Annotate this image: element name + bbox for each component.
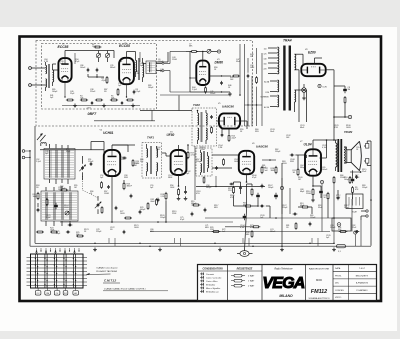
wire DM80 bus bbox=[160, 94, 230, 96]
wire heater drop lines bbox=[306, 90, 308, 122]
capacitor C10 bbox=[37, 208, 39, 210]
test node aux bbox=[354, 231, 357, 234]
svg-text:220µF: 220µF bbox=[96, 231, 102, 233]
wire AF coupling bbox=[246, 184, 248, 210]
svg-text:47Ω: 47Ω bbox=[230, 197, 234, 199]
svg-text:150µF: 150µF bbox=[275, 151, 281, 153]
resistor R10 bbox=[232, 75, 234, 77]
FM tuner unit 0BF7 dashed box bbox=[42, 44, 157, 110]
capacitor C38 bbox=[355, 231, 357, 233]
resistor R47 bbox=[212, 231, 214, 233]
wire ratio det to V6 bbox=[212, 154, 239, 156]
wire EZ80 plates bbox=[302, 54, 304, 64]
wire UF80 screen drop bbox=[194, 146, 196, 200]
resistor R7 bbox=[110, 99, 112, 101]
svg-text:150Ω: 150Ω bbox=[282, 163, 287, 165]
speaker jack J1 bbox=[366, 144, 369, 149]
capacitor C31 bbox=[221, 133, 223, 135]
output transformer TRU primary bbox=[336, 143, 338, 167]
wire detector network bbox=[233, 182, 235, 185]
wire IF B plus bbox=[187, 145, 189, 150]
capacitor C14 bbox=[90, 162, 92, 164]
push button FO bbox=[63, 291, 68, 296]
wire mid horizontals bbox=[150, 231, 330, 233]
tube V7 UL84 bbox=[305, 149, 321, 175]
wire tone network bbox=[326, 172, 328, 193]
tube V8 EZ80 rectifier bbox=[301, 64, 325, 76]
tube V6 UABC80 AF triode bbox=[239, 151, 254, 174]
electrolytic C27 bbox=[244, 214, 246, 216]
svg-text:100Ω: 100Ω bbox=[134, 227, 139, 229]
resistor R13 bbox=[46, 198, 48, 200]
capacitor C6 bbox=[221, 81, 223, 83]
wire det outputs bbox=[269, 121, 271, 142]
svg-text:220pF: 220pF bbox=[344, 207, 350, 209]
wire speaker wiring bbox=[351, 155, 364, 157]
tuning gang C V1 bbox=[82, 166, 84, 168]
electrolytic C11 bbox=[55, 203, 57, 205]
svg-text:2,2M: 2,2M bbox=[218, 147, 223, 149]
wire UCH81 triode osc bbox=[98, 167, 104, 169]
transformer TRA4 HT winding bbox=[295, 54, 296, 70]
wire UCH81 plate bbox=[111, 145, 113, 150]
svg-text:33Ω: 33Ω bbox=[255, 131, 259, 133]
ratio detector transformer dashed box bbox=[196, 148, 212, 176]
svg-text:100Ω: 100Ω bbox=[346, 127, 351, 129]
capacitor C7 bbox=[247, 74, 249, 76]
wire tuner out to DM80 bbox=[164, 63, 170, 65]
capacitor C42 bbox=[115, 206, 117, 208]
resistor R24 bbox=[244, 205, 246, 207]
tuning gang C V2 bbox=[97, 203, 99, 205]
title block dividers bbox=[227, 265, 229, 301]
ground main bus bbox=[94, 248, 96, 250]
test node mains bbox=[280, 186, 283, 189]
wire DM80 grid left bbox=[189, 52, 191, 93]
wire V1 plate to RF cluster bbox=[64, 51, 66, 59]
FM antenna input coil L1 bbox=[46, 65, 47, 73]
wire IF agc line bbox=[165, 153, 167, 160]
wire UL84 cathode bbox=[312, 176, 314, 186]
svg-text:2,2M: 2,2M bbox=[336, 197, 341, 199]
switch contact row bbox=[36, 250, 37, 251]
resistor R28 bbox=[203, 176, 205, 177]
output transformer TRU secondary bbox=[344, 147, 345, 163]
wire UL84 plate to TRU bbox=[312, 140, 314, 149]
diode load resistor R22 bbox=[233, 186, 235, 188]
electrolytic C36 bbox=[275, 193, 277, 195]
speaker jack J2 bbox=[366, 159, 369, 164]
wire V4 plate bbox=[178, 145, 180, 150]
capacitor C4 bbox=[91, 101, 93, 102]
svg-text:380µF: 380µF bbox=[206, 187, 212, 189]
svg-text:100nF: 100nF bbox=[80, 67, 86, 69]
capacitor C3 bbox=[133, 90, 135, 92]
svg-text:220µF: 220µF bbox=[196, 161, 202, 163]
resistor R4 bbox=[66, 99, 68, 101]
svg-text:150nF: 150nF bbox=[310, 217, 316, 219]
resistor R16 cathode bbox=[178, 188, 180, 190]
phono input terminals bbox=[22, 150, 25, 153]
resistor R52 bbox=[156, 198, 158, 200]
wire THF1 to V4 grid bbox=[162, 152, 167, 154]
THF2 primary coil bbox=[198, 113, 199, 125]
transformer TRA4 core bbox=[283, 46, 285, 111]
svg-text:100µF: 100µF bbox=[140, 209, 146, 211]
svg-text:220M: 220M bbox=[172, 59, 177, 61]
resistor R3 bbox=[117, 88, 119, 90]
ground EZ80 filter bbox=[303, 96, 305, 98]
wire THF2 feed bbox=[140, 110, 192, 112]
wire bus risers bbox=[270, 217, 334, 219]
svg-text:150µF: 150µF bbox=[362, 187, 368, 189]
ground V4 cathode bbox=[178, 197, 180, 199]
volume potentiometer with switch bbox=[240, 251, 249, 257]
capacitor C35 bbox=[261, 184, 263, 186]
antenna terminal A1 bbox=[29, 67, 32, 70]
svg-text:2,2M: 2,2M bbox=[135, 73, 140, 75]
capacitor C26 on bus bbox=[230, 183, 232, 185]
tube V3 DM80 tuning indicator bbox=[196, 61, 209, 85]
svg-text:22Ω: 22Ω bbox=[58, 189, 62, 191]
wire B+ row 145 bbox=[112, 144, 135, 146]
heater bus upper bbox=[35, 242, 334, 244]
wire interstage bbox=[87, 74, 89, 77]
resistor R1 bbox=[94, 46, 96, 48]
FM tuner outer dashed enclosure bbox=[36, 41, 253, 127]
capacitor C12 bbox=[68, 224, 70, 226]
resistor R9 bbox=[190, 51, 192, 53]
loudspeaker bbox=[347, 150, 351, 163]
resistor R21 bbox=[228, 134, 230, 136]
capacitor C37 bbox=[309, 222, 311, 224]
resistor R42 bbox=[333, 176, 335, 178]
test node 6.3V bbox=[318, 84, 321, 87]
ground tuner 1 bbox=[74, 104, 76, 106]
capacitor C20 bbox=[185, 190, 187, 192]
capacitor C21 bbox=[157, 198, 159, 200]
data table grid bbox=[333, 271, 377, 273]
svg-text:150M: 150M bbox=[104, 193, 109, 195]
capacitor C22 bbox=[204, 208, 206, 210]
keyboard matrix columns bbox=[34, 254, 36, 288]
resistor R19 screen bbox=[123, 182, 125, 184]
wire psu left drops bbox=[247, 80, 249, 126]
border frame bbox=[20, 37, 382, 302]
svg-text:4,7Ω: 4,7Ω bbox=[240, 227, 245, 229]
wire DM80 bottom bus bbox=[190, 91, 230, 93]
capacitor C1 bbox=[87, 68, 89, 70]
svg-text:4,7nF: 4,7nF bbox=[322, 147, 328, 149]
resistor R35 grid bbox=[297, 168, 299, 170]
wire tuner B+ lead bbox=[157, 61, 169, 63]
push button OM bbox=[45, 291, 51, 296]
wire am bottom runs bbox=[37, 203, 39, 207]
resistor R58 bbox=[124, 217, 126, 219]
resistor R27 bbox=[223, 158, 225, 160]
resistor R11 bbox=[205, 86, 207, 88]
antenna terminal A2 bbox=[29, 84, 32, 87]
mains transformer TRA4 secondary winding bbox=[278, 80, 279, 92]
svg-text:47Ω: 47Ω bbox=[196, 193, 200, 195]
capacitor C32 bbox=[240, 186, 242, 188]
test node B+ bbox=[348, 115, 351, 118]
heater bus lower bbox=[30, 245, 371, 247]
tube V4 UCH81 converter bbox=[104, 150, 120, 176]
svg-text:68Ω: 68Ω bbox=[205, 227, 209, 229]
wire L1 to V1 grid bbox=[53, 69, 59, 71]
svg-text:100M: 100M bbox=[234, 161, 239, 163]
filter capacitor C50 electrolytic bbox=[344, 87, 346, 89]
capacitor C24 bbox=[108, 185, 110, 187]
svg-text:100K: 100K bbox=[170, 187, 175, 189]
svg-text:100µF: 100µF bbox=[148, 87, 154, 89]
capacitor C48 bbox=[293, 213, 295, 215]
ratio detector coils bbox=[201, 153, 202, 162]
AM oscillator coil assembly L4 bbox=[41, 191, 78, 221]
legend capacitor symbols bbox=[200, 273, 204, 275]
wire mains right drop bbox=[370, 146, 372, 246]
svg-text:220nF: 220nF bbox=[90, 91, 96, 93]
svg-text:100nF: 100nF bbox=[322, 169, 328, 171]
svg-text:1M: 1M bbox=[298, 179, 301, 181]
capacitor C5 bbox=[121, 101, 123, 102]
resistor R46 bbox=[275, 166, 277, 168]
tube V5 UABC80 demodulator triode bbox=[219, 113, 240, 128]
test node T1 bbox=[217, 50, 220, 53]
capacitor C43 bbox=[123, 230, 125, 232]
wire feedback path bbox=[352, 170, 354, 177]
push button OL bbox=[54, 291, 60, 296]
wire detector bus bbox=[196, 186, 265, 188]
capacitor C41 bbox=[66, 231, 68, 233]
wire bottom right bbox=[330, 231, 339, 233]
resistor R44 bbox=[256, 76, 258, 78]
tube V1 ECC85 bbox=[58, 58, 71, 82]
resistor R6 bbox=[95, 99, 97, 101]
svg-text:47M: 47M bbox=[334, 127, 338, 129]
keyboard matrix bus lines bbox=[27, 257, 88, 259]
resistor R43 bbox=[349, 176, 351, 178]
IF transformer THF2 dashed box bbox=[192, 108, 217, 146]
resistor R5 bbox=[80, 99, 82, 101]
resistor R25 bbox=[132, 159, 134, 161]
svg-text:5M: 5M bbox=[134, 165, 137, 167]
svg-text:33M: 33M bbox=[124, 177, 128, 179]
test node screen bbox=[320, 180, 323, 183]
capacitor C47 bbox=[337, 196, 339, 198]
electrolytic C33 bbox=[257, 193, 259, 195]
mains plug bbox=[366, 210, 368, 212]
resistor R48 bbox=[252, 226, 254, 228]
wire AF feed bbox=[262, 159, 276, 161]
wire tuner ground bus bbox=[62, 105, 140, 107]
svg-text:68Ω: 68Ω bbox=[150, 231, 154, 233]
svg-text:100Ω: 100Ω bbox=[120, 213, 125, 215]
capacitor C23 bbox=[122, 157, 124, 159]
push button stems bbox=[37, 288, 39, 291]
wire keyboard feeds bbox=[32, 231, 34, 233]
wire UL84 grid bbox=[295, 154, 298, 156]
svg-text:220µF: 220µF bbox=[282, 207, 288, 209]
svg-text:150Ω: 150Ω bbox=[64, 207, 69, 209]
svg-text:220nF: 220nF bbox=[330, 227, 336, 229]
wire RF node to V2 bbox=[111, 50, 114, 52]
resistor R54 bbox=[36, 231, 38, 233]
svg-text:68Ω: 68Ω bbox=[214, 207, 218, 209]
capacitor C52 bbox=[356, 175, 358, 177]
wire UL84 screen bbox=[320, 157, 327, 159]
wire vertical risers bbox=[29, 150, 31, 246]
capacitor C2 bbox=[96, 68, 98, 70]
capacitor C13 bbox=[130, 194, 132, 196]
resistor R55 bbox=[50, 231, 52, 233]
resistor R40 bbox=[344, 96, 346, 98]
resistor R15 screen bbox=[187, 151, 189, 153]
resistor R50 bbox=[295, 222, 297, 224]
ground tuner 2 bbox=[103, 104, 105, 106]
wire heater taps bbox=[108, 238, 110, 243]
resistor R53 bbox=[147, 202, 149, 204]
resistor R56 bbox=[76, 235, 78, 237]
capacitor C39 bbox=[191, 212, 193, 214]
wire right risers bbox=[344, 117, 346, 122]
THF1 primary coil bbox=[147, 149, 148, 158]
svg-text:380nF: 380nF bbox=[110, 67, 116, 69]
capacitor C25 bbox=[216, 166, 218, 168]
resistor R17 bbox=[165, 192, 167, 194]
svg-text:380K: 380K bbox=[168, 177, 173, 179]
resistor R18 bbox=[192, 204, 194, 206]
wire audio misc bbox=[297, 177, 299, 207]
trimmer CT1 bbox=[96, 53, 100, 57]
svg-text:150pF: 150pF bbox=[160, 217, 166, 219]
oscillator coil L2 with core bbox=[136, 60, 137, 72]
resistor R57 bbox=[101, 206, 103, 208]
output transformer TRU core bbox=[337, 139, 339, 172]
svg-text:150nF: 150nF bbox=[210, 93, 216, 95]
wire EZ80 cathode to filter bbox=[326, 69, 334, 71]
fusible resistor S1AF bbox=[337, 245, 346, 248]
capacitor C30 bbox=[211, 115, 213, 117]
title block frame bbox=[198, 265, 377, 301]
svg-text:100pF: 100pF bbox=[268, 187, 274, 189]
svg-text:220nF: 220nF bbox=[88, 161, 94, 163]
resistor R8 bbox=[126, 99, 128, 101]
resistor R45 bbox=[261, 166, 263, 168]
push button AF bbox=[73, 291, 79, 296]
gang link dashed bbox=[82, 176, 84, 190]
ground UL84 cathode bbox=[312, 198, 314, 200]
svg-text:220K: 220K bbox=[172, 213, 177, 215]
resistor R26 bbox=[101, 181, 103, 183]
wire screen net bbox=[123, 180, 125, 183]
trimmer CT3 bbox=[207, 49, 211, 53]
svg-text:220M: 220M bbox=[200, 149, 205, 151]
svg-text:380µF: 380µF bbox=[300, 167, 306, 169]
ground tuner 3 bbox=[132, 104, 134, 106]
resistor R14 bbox=[60, 189, 62, 191]
tube V4a UF80 IF amp bbox=[171, 150, 187, 175]
wire DM80 output right bbox=[209, 75, 231, 77]
wire V2 plate to osc coil bbox=[126, 52, 128, 58]
THF1 secondary coil bbox=[157, 149, 158, 158]
svg-text:22Ω: 22Ω bbox=[120, 159, 124, 161]
resistor R38 bbox=[301, 206, 303, 208]
dial lamp LP1 bbox=[302, 88, 307, 93]
pickup jack box bbox=[332, 218, 351, 231]
resistor R23 bbox=[251, 188, 253, 190]
keyboard switch matrix frame bbox=[31, 254, 84, 288]
svg-text:2,2pF: 2,2pF bbox=[46, 217, 52, 219]
AM antenna coil assembly L3 bbox=[44, 149, 75, 180]
ground DM80 bbox=[229, 92, 231, 94]
svg-text:100pF: 100pF bbox=[52, 91, 58, 93]
IF transformer THF1 dashed box bbox=[142, 143, 162, 179]
wire AM grid bbox=[40, 149, 104, 151]
svg-text:2,2µF: 2,2µF bbox=[192, 89, 198, 91]
capacitor C45 coupling bbox=[290, 154, 292, 156]
keyboard matrix top contacts bbox=[36, 251, 38, 255]
resistor R2 bbox=[106, 76, 108, 78]
wire left bottom stubs bbox=[37, 226, 39, 243]
THF2 secondary coil bbox=[206, 113, 207, 125]
svg-text:4,7Ω: 4,7Ω bbox=[44, 61, 49, 63]
svg-text:220M: 220M bbox=[340, 177, 345, 179]
wire AGC bus junctions bbox=[165, 221, 167, 223]
legend resistor symbols bbox=[231, 275, 234, 277]
paper haze bbox=[21, 38, 380, 300]
svg-text:1M: 1M bbox=[74, 187, 77, 189]
tube V2 ECC85 bbox=[119, 58, 134, 84]
resistor R37 bbox=[327, 192, 329, 194]
resistor R51 bbox=[339, 231, 341, 233]
wire V5 cathode network bbox=[221, 129, 223, 133]
capacitor C34 bbox=[260, 205, 262, 207]
push button OC bbox=[35, 291, 41, 296]
FM output filter block bbox=[146, 61, 156, 74]
svg-text:220M: 220M bbox=[306, 193, 311, 195]
resistor R12 bbox=[37, 192, 39, 194]
wire B+ to output transformer bbox=[333, 117, 335, 140]
negative feedback resistor R41 bbox=[352, 186, 354, 188]
capacitor C40 bbox=[139, 210, 141, 212]
svg-text:33M: 33M bbox=[290, 161, 294, 163]
mains transformer TRA4 primary taps bbox=[278, 47, 279, 74]
wire V4 cathode bbox=[178, 175, 180, 186]
trimmer CT2 bbox=[105, 53, 109, 57]
wire THF2 to V5 bbox=[217, 120, 219, 122]
wire HT rail right bbox=[334, 77, 345, 79]
resistor R49 bbox=[251, 230, 253, 232]
resistor R36 cathode bbox=[312, 188, 314, 190]
feedback capacitor C51 bbox=[352, 177, 354, 179]
trimmer CT4 bbox=[65, 211, 69, 215]
svg-text:2,2µF: 2,2µF bbox=[36, 161, 42, 163]
resistor R20 bbox=[211, 126, 213, 128]
bypass capacitor C46 bbox=[320, 189, 322, 191]
voltage selector plate bbox=[346, 194, 363, 209]
svg-text:380nF: 380nF bbox=[270, 231, 276, 233]
ferrite rod antenna bbox=[37, 134, 43, 141]
svg-text:47M: 47M bbox=[156, 149, 160, 151]
wire DM80 top feed bbox=[186, 51, 191, 53]
